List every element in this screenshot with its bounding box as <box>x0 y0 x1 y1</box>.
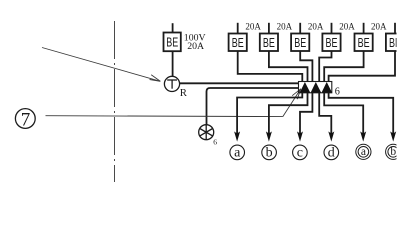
circled number 7 <box>15 109 35 131</box>
svg-text:d: d <box>328 145 335 160</box>
remote-control transformer T R <box>164 76 187 99</box>
leader arrow to transformer <box>42 48 160 82</box>
node a <box>230 145 245 160</box>
branch breaker BE4 with stem <box>322 23 340 51</box>
svg-text:b: b <box>390 146 396 158</box>
arrowhead circuit b <box>266 131 272 141</box>
svg-text:BE: BE <box>294 35 306 50</box>
svg-text:20A: 20A <box>308 22 324 32</box>
arrowhead circuit a2 <box>360 131 366 141</box>
svg-text:b: b <box>266 145 273 160</box>
node a2 double circle <box>356 144 371 159</box>
wire BE1 to relay bank <box>238 51 303 82</box>
svg-text:BE: BE <box>326 35 338 50</box>
svg-text:BE: BE <box>232 35 244 50</box>
breaker BE main <box>164 33 181 52</box>
branch breaker BE3 with stem <box>291 23 309 51</box>
branch breaker BE1 with stem <box>229 23 247 51</box>
remote-control relay bank (3 relays) <box>299 82 333 93</box>
wire BE3 to relay bank <box>300 51 312 82</box>
svg-text:6: 6 <box>335 87 340 98</box>
svg-text:20A: 20A <box>339 22 355 32</box>
wire BE2 to relay bank <box>269 51 308 82</box>
wire BE5 to relay bank <box>324 51 363 82</box>
svg-text:a: a <box>234 145 241 160</box>
wire BE6 to relay bank <box>329 51 395 82</box>
boundary chain line <box>114 21 116 182</box>
leader line from 7 to relay bank <box>46 89 301 117</box>
wire relay bank to circuit a2 <box>324 93 363 135</box>
svg-text:6: 6 <box>213 138 217 147</box>
svg-text:20A: 20A <box>371 22 387 32</box>
arrowhead circuit a <box>234 131 240 141</box>
svg-text:BE: BE <box>166 34 178 49</box>
wire relay bank to circuit d <box>319 93 331 135</box>
branch breaker BE2 with stem <box>260 23 278 51</box>
node b <box>262 145 277 160</box>
remote-control selector switch 6 <box>199 125 218 147</box>
svg-text:7: 7 <box>21 109 31 130</box>
wire relay bank to circuit c <box>300 93 312 135</box>
wire main breaker to transformer <box>172 51 174 76</box>
node d <box>324 145 339 160</box>
wire selector to relay bank <box>207 88 299 124</box>
branch breaker BE6 with stem (clipped) <box>386 23 404 51</box>
value label 100V 20A <box>184 32 206 51</box>
wire relay bank to circuit a <box>237 93 302 135</box>
wire transformer to relay bank <box>180 82 299 84</box>
svg-text:R: R <box>180 87 188 99</box>
arrowhead circuit d <box>328 131 334 141</box>
svg-text:20A: 20A <box>245 22 261 32</box>
svg-text:20A: 20A <box>277 22 293 32</box>
wire supply to main breaker <box>172 23 174 32</box>
arrowhead circuit c <box>297 131 303 141</box>
wire relay bank to circuit b2 <box>329 93 394 135</box>
wire BE4 to relay bank <box>319 51 331 82</box>
branch breaker BE5 with stem <box>355 23 373 51</box>
svg-text:BE: BE <box>358 35 370 50</box>
wire relay bank to circuit b <box>269 93 308 135</box>
svg-text:20A: 20A <box>187 41 204 52</box>
arrowhead circuit b2 <box>390 131 396 141</box>
node c <box>293 145 308 160</box>
svg-text:a: a <box>361 146 366 158</box>
node b2 double circle <box>386 144 401 159</box>
figure clip edge <box>397 0 418 185</box>
svg-text:BE: BE <box>263 35 275 50</box>
svg-text:c: c <box>297 145 303 160</box>
